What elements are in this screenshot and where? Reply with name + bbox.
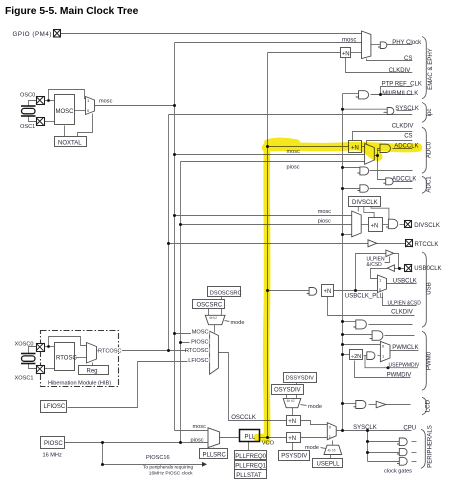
- node vco-USB: [266, 289, 269, 292]
- svg-text:piosc: piosc: [287, 164, 300, 170]
- node trunk-SYSCLK: [341, 429, 344, 432]
- wire RTCCLK buffer to pad: [377, 243, 406, 245]
- wire ADCCLK ADC1 output: [394, 181, 413, 183]
- svg-text:EMAC & EPHY: EMAC & EPHY: [427, 48, 434, 90]
- svg-text:NOXTAL: NOXTAL: [58, 141, 82, 147]
- wire USB riser to output buffer: [356, 254, 386, 290]
- node vco-PLL: [266, 436, 269, 439]
- wire DIVSCLK box to +N: [364, 207, 374, 218]
- svg-text:ADC1: ADC1: [425, 176, 432, 193]
- svg-text:OSC1: OSC1: [20, 124, 35, 130]
- buffer USB input: [387, 265, 394, 272]
- NOXTAL box: [55, 137, 87, 147]
- PLLSRC box: [200, 449, 228, 459]
- crystal main oscillator: [21, 106, 36, 116]
- wire mode2 mux to +N divider: [292, 408, 294, 416]
- wire PWM gate output: [385, 335, 415, 337]
- buffer LCD: [376, 401, 386, 408]
- svg-text:ULPIEN &CSD: ULPIEN &CSD: [388, 301, 422, 307]
- svg-text:OSCSRC: OSCSRC: [197, 303, 223, 309]
- arrowhead PIOSC16: [202, 462, 207, 467]
- mux system clock: [327, 423, 336, 440]
- svg-text:ADC0: ADC0: [425, 141, 432, 158]
- highlight vertical VCO riser: [266, 146, 267, 441]
- buffer RTCCLK: [368, 240, 377, 247]
- wire +N2 to PSYSDIV: [292, 443, 294, 451]
- wire XOSC0 pad to crystal: [29, 347, 37, 355]
- svg-text:DIVSCLK: DIVSCLK: [352, 200, 378, 206]
- wire LCD buffer output: [386, 404, 411, 406]
- pad XOSC0: [36, 343, 45, 351]
- svg-text:RTCCLK: RTCCLK: [415, 242, 439, 248]
- highlight horizontal VCO to ADCCLK: [266, 146, 418, 148]
- wire piosc branch to DIVSCLK mux: [181, 224, 352, 226]
- svg-text:4b b2: 4b b2: [287, 399, 295, 403]
- node periph gate1: [366, 440, 369, 443]
- wire mosc to EMAC mux (top branch): [175, 42, 362, 44]
- wire USB mux select ULPIEN: [383, 293, 417, 306]
- wire PIOSC16 to peripherals: [103, 464, 203, 466]
- wire div2N to PWM AND gate: [364, 355, 367, 357]
- svg-text:16 MHz: 16 MHz: [43, 452, 62, 458]
- wire mosc riser (vertical x=174.5): [174, 43, 176, 431]
- wire +N1 to sys mux input 0: [300, 421, 328, 425]
- wire RTCOSC branch to ipc gate: [169, 114, 413, 116]
- svg-text:mosc: mosc: [99, 99, 113, 105]
- wire +N2 to sys mux input 1: [300, 437, 328, 439]
- node XOSC0 junction: [47, 345, 50, 348]
- wire DIVSCLK box to gate enable: [371, 207, 389, 220]
- wire trunk to DIVSCLK mux: [343, 234, 352, 236]
- wire ipc SYSCLK output: [397, 110, 413, 112]
- wire USEPWMDIV control: [365, 356, 418, 368]
- svg-text:4b b5: 4b b5: [328, 449, 336, 453]
- svg-text:PTP REF_CLK: PTP REF_CLK: [382, 81, 422, 87]
- wire trunk to div2N box: [343, 354, 350, 356]
- wire CPU riser for peripherals: [367, 431, 369, 462]
- wire to peripheral gate 2: [368, 452, 400, 454]
- svg-text:DIVSCLK: DIVSCLK: [414, 223, 440, 229]
- wire MII/RMII CLK output: [371, 94, 413, 96]
- svg-text:mosc: mosc: [318, 209, 332, 215]
- gate PHY Clock: [378, 42, 387, 49]
- wire piosc branch to OSCSRC big mux: [181, 342, 210, 344]
- wire mode mux to OSCSRC big mux select: [214, 325, 216, 333]
- mux mode osysdiv: [283, 398, 301, 407]
- svg-text:CPU: CPU: [403, 425, 416, 431]
- gate LCD: [353, 401, 366, 409]
- mux DIVSCLK: [352, 211, 362, 237]
- wire EMAC +N to mux: [351, 52, 362, 54]
- wire HIB mux select to Reg: [92, 363, 94, 366]
- wire ADC mux out down to ADC1 gate: [378, 156, 386, 180]
- wire trunk to ADC0 gate: [343, 167, 360, 169]
- wire PWMCLK output: [391, 350, 419, 352]
- highlight PLL VCO output: [257, 434, 265, 442]
- node trunk-USBCLKDIV: [341, 320, 344, 323]
- svg-text:RTOSC: RTOSC: [56, 356, 77, 362]
- OSCSRC box: [193, 300, 225, 309]
- wire PIOSC to PIOSC16: [102, 443, 104, 465]
- wire trunk to ADC1 gate: [343, 188, 360, 190]
- label LFIOSC mux input: [188, 357, 210, 364]
- mux mode oscsrc: [205, 315, 225, 324]
- wire MOSC mux to NOXTAL: [78, 114, 93, 137]
- crystal hibernation oscillator: [21, 354, 36, 364]
- node USBCLK_PLL riser: [354, 289, 357, 292]
- svg-text:USEPWMDIV: USEPWMDIV: [389, 363, 421, 369]
- node mosc-DIVSCLK: [173, 214, 176, 217]
- brace ipc: [422, 103, 426, 123]
- svg-text:mode: mode: [231, 320, 245, 326]
- node trunk-ADC0: [341, 166, 344, 169]
- wire VCO riser (vertical x=267.2): [267, 53, 269, 438]
- wire mosc branch to OSCSRC big mux: [175, 333, 210, 335]
- mux MOSC bypass: [86, 97, 95, 115]
- wire piosc riser (vertical x=180): [180, 162, 182, 444]
- mux ADC: [365, 144, 375, 165]
- wire trunk to LCD gate: [343, 403, 356, 405]
- pad USB0CLK: [405, 265, 413, 272]
- wire MOSC box to mux input 0: [75, 110, 86, 112]
- wire mosc to PLLSRC mux (bottom branch): [175, 430, 209, 432]
- gate peripheral 1: [397, 438, 407, 446]
- PLLFREQ1 box: [235, 461, 267, 470]
- USEPLL box: [313, 459, 343, 468]
- wire OSC0 loop to MOSC mux input 1: [49, 90, 86, 101]
- wire USB pad to input buffer: [395, 268, 399, 270]
- brace LCD: [422, 397, 426, 415]
- node MII-PTP: [379, 93, 382, 96]
- svg-text:XOSC1: XOSC1: [15, 376, 34, 382]
- pad XOSC1: [36, 365, 45, 373]
- wire PLLSRC mux select: [213, 448, 215, 449]
- wire XOSC1 pad to RTOSC box: [44, 368, 55, 370]
- wire ADC mux out to ADCCLK gate: [378, 149, 381, 156]
- PLLFREQ0 box: [235, 451, 267, 461]
- node CPU riser: [366, 429, 369, 432]
- node ADCmux output: [376, 154, 379, 157]
- wire mosc branch to DIVSCLK mux: [175, 215, 352, 217]
- wire ADC mux output junction: [375, 155, 378, 157]
- wire mode2 mux tick: [301, 405, 307, 406]
- wire PLL to PLLFREQ0: [248, 442, 250, 451]
- LFIOSC box: [41, 401, 67, 413]
- wire RTCOSC branch to RTCCLK buffer: [169, 243, 369, 245]
- Reg box: [79, 366, 109, 375]
- wire mosc branch to ADC mux: [175, 154, 365, 156]
- svg-text:USBCLK: USBCLK: [393, 278, 417, 284]
- wire PHY Clock output: [387, 44, 413, 46]
- node trunk-ipc: [341, 108, 344, 111]
- node rtcosc-HIB: [167, 349, 170, 352]
- wire to peripheral gate 3: [368, 461, 400, 463]
- wire RTOSC box to HIB mux input 0: [76, 357, 87, 359]
- wire OSYSDIV to mode mux right: [296, 394, 298, 399]
- divider +N DIVSCLK: [369, 218, 383, 232]
- wire piosc branch to ADC mux: [181, 161, 365, 163]
- gate ADC1 aux: [358, 185, 369, 192]
- wire mode mux tick: [225, 321, 230, 322]
- OSYSDIV box: [272, 385, 304, 395]
- wire LFIOSC to OSCSRC big mux: [68, 362, 210, 408]
- wire RTCOSC from HIB mux to OSCSRC big mux: [97, 350, 210, 352]
- svg-text:4b b2: 4b b2: [209, 316, 217, 320]
- wire EMAC CLKDIV: [346, 58, 413, 73]
- svg-text:+N: +N: [324, 289, 332, 295]
- mux RTCOSC: [87, 343, 97, 364]
- node trunk-ADC1: [341, 187, 344, 190]
- svg-text:RTCOSC: RTCOSC: [98, 348, 122, 354]
- svg-text:mosc: mosc: [342, 37, 356, 43]
- svg-text:ipc: ipc: [426, 109, 433, 117]
- svg-text:PWM0: PWM0: [425, 351, 432, 370]
- node trunk-DIVSCLK: [341, 233, 344, 236]
- svg-text:CLKDIV: CLKDIV: [389, 68, 411, 74]
- mux EMAC: [362, 31, 371, 59]
- gate MII/RMII: [356, 91, 369, 99]
- svg-text:MOSC: MOSC: [56, 109, 75, 115]
- PSYSDIV box: [279, 451, 310, 461]
- svg-text:RTCOSC: RTCOSC: [185, 348, 209, 354]
- node vco-ADC: [266, 145, 269, 148]
- node OSC0 junction: [47, 99, 50, 102]
- node piosc-DIVSCLK: [179, 223, 182, 226]
- RTOSC box: [55, 343, 78, 371]
- wire PTP REF_CLK: [381, 87, 413, 95]
- wire GPIO (PM4) to EMAC mux: [61, 33, 362, 35]
- node periph gate2: [366, 451, 369, 454]
- svg-text:USEPLL: USEPLL: [317, 462, 341, 468]
- mux mode usepll: [324, 445, 342, 454]
- divider div2N PWM: [350, 350, 363, 360]
- svg-text:Figure 5-5. Main Clock Tree: Figure 5-5. Main Clock Tree: [5, 6, 139, 17]
- svg-text:piosc: piosc: [318, 218, 331, 224]
- wire trunk to USB CLKDIV gate: [343, 321, 356, 323]
- divider +N osysdiv: [287, 416, 301, 426]
- svg-text:PIOSC: PIOSC: [44, 441, 63, 447]
- wire ADC CLKDIV control: [353, 132, 413, 141]
- wire trunk to ipc SYSCLK gate: [343, 108, 388, 110]
- svg-text:LFIOSC: LFIOSC: [188, 358, 208, 364]
- MOSC box: [55, 95, 75, 125]
- svg-text:DSOSCSRC: DSOSCSRC: [210, 290, 242, 296]
- wire OSC0 pad to MOSC box: [44, 100, 55, 102]
- wire USBCLK output: [387, 283, 417, 285]
- wire PWMDIV control: [355, 361, 411, 378]
- svg-text:PIOSC: PIOSC: [191, 339, 208, 345]
- wire OSC0 pad to crystal: [29, 101, 37, 107]
- DIVSCLK box: [349, 197, 381, 207]
- node rtcosc-RTCCLK: [167, 242, 170, 245]
- svg-text:SYSCLK: SYSCLK: [395, 106, 419, 112]
- svg-text:PSYSDIV: PSYSDIV: [281, 453, 307, 459]
- svg-text:mode: mode: [305, 445, 319, 451]
- node mosc-ADC: [173, 153, 176, 156]
- svg-text:÷2N: ÷2N: [351, 354, 361, 360]
- node mosc-OSCSRC: [173, 332, 176, 335]
- label MOSC mux input: [191, 329, 210, 336]
- wire USB buffer enable stub: [385, 257, 390, 263]
- node trunk-div2N: [341, 353, 344, 356]
- svg-text:CS: CS: [404, 56, 412, 62]
- hibernation module dash-dot border: [41, 331, 119, 387]
- wire XOSC1 pad to crystal: [29, 363, 37, 369]
- node piosc-PIOSC: [179, 441, 182, 444]
- pad OSC1: [36, 118, 45, 126]
- wire OSCSRC big mux output to OSCCLK: [219, 353, 287, 421]
- svg-text:SYSCLK: SYSCLK: [353, 425, 377, 431]
- svg-text:+N: +N: [371, 224, 379, 230]
- node USEPWMDIV: [387, 366, 390, 369]
- wire DSSYSDIV to OSYSDIV: [296, 383, 298, 385]
- gate ADCCLK ADC0: [378, 144, 391, 152]
- label RTCOSC mux input: [185, 347, 210, 354]
- wire VCO branch to EMAC +N: [268, 52, 341, 54]
- svg-text:PHY Clock: PHY Clock: [392, 40, 422, 46]
- gate peripheral 3: [397, 458, 407, 466]
- mux USB: [378, 275, 387, 293]
- svg-text:PIOSC16: PIOSC16: [146, 455, 170, 461]
- node mosc-MOSCmux: [173, 104, 176, 107]
- label RTCOSC at HIB mux: [98, 347, 123, 354]
- brace USB: [422, 252, 426, 327]
- wire mode3 tick: [321, 448, 326, 449]
- svg-text:OSC0: OSC0: [20, 93, 35, 99]
- wire DIVSCLK mux to +N: [362, 224, 369, 226]
- wire XOSC0 pad to RTOSC box: [44, 346, 55, 348]
- svg-text:LFIOSC: LFIOSC: [44, 404, 66, 410]
- svg-text:LCD: LCD: [425, 399, 432, 412]
- svg-text:PLLSTAT: PLLSTAT: [236, 473, 261, 479]
- svg-text:To peripherals requiring: To peripherals requiring: [143, 465, 193, 471]
- svg-text:&/CSD: &/CSD: [367, 262, 383, 268]
- mux PWM: [380, 341, 390, 361]
- wire PLLSRC mux to PLL: [220, 437, 240, 439]
- wire trunk to MII/RMII gate: [343, 93, 359, 95]
- wire DSOSCSRC to OSCSRC: [221, 297, 223, 300]
- wire PWM AND gate to mux input 1: [378, 355, 381, 357]
- brace PWM0: [422, 331, 426, 390]
- brace EMAC & EPHY: [422, 37, 426, 99]
- wire MOSC box to NOXTAL: [64, 126, 66, 137]
- svg-text:CLKDIV: CLKDIV: [391, 310, 413, 316]
- svg-text:Hibernation Module (HIB): Hibernation Module (HIB): [48, 381, 111, 387]
- wire USEPLL box to mode mux: [330, 455, 332, 459]
- wire OSCSRC to mode mux right: [221, 309, 223, 316]
- wire trunk to PWM gate: [343, 334, 373, 336]
- highlight start blob: [267, 141, 297, 143]
- divider +N USB: [322, 285, 334, 297]
- mux OSCSRC big: [210, 331, 219, 374]
- wire USBCLK_PLL to mux input 0: [334, 290, 378, 292]
- wire ADCCLK ADC0 output: [393, 148, 413, 150]
- wire USB CLKDIV gate output: [369, 324, 413, 326]
- gate PWM sysclk: [370, 331, 383, 341]
- gate PWM div: [367, 352, 375, 360]
- svg-text:CLKDIV: CLKDIV: [392, 123, 414, 129]
- svg-text:mode: mode: [308, 404, 322, 410]
- svg-text:piosc: piosc: [191, 437, 204, 443]
- svg-text:OSYSDIV: OSYSDIV: [274, 387, 301, 393]
- svg-text:ADCCLK: ADCCLK: [392, 177, 416, 183]
- DSSYSDIV box: [284, 373, 317, 383]
- wire OSC1 pad to MOSC box: [44, 121, 55, 123]
- wire DIVSCLK box to mux select: [357, 207, 359, 212]
- buffer USB output: [386, 250, 394, 257]
- wire trunk to PWM mux input 0: [343, 344, 381, 346]
- svg-text:USBCLK_PLL: USBCLK_PLL: [345, 293, 384, 299]
- node trunk-PWMmux: [341, 343, 344, 346]
- highlight over ADC mux: [360, 147, 378, 157]
- node trunk-LCD: [341, 402, 344, 405]
- node PIOSC junction top: [101, 441, 104, 444]
- wire LCD gate to buffer: [369, 404, 377, 406]
- pad OSC0: [36, 97, 45, 105]
- svg-text:GPIO (PM4): GPIO (PM4): [12, 31, 52, 38]
- wire OSC1 pad to crystal: [29, 116, 37, 122]
- wire RTCOSC riser (vertical x=168): [168, 115, 170, 351]
- svg-text:PWMCLK: PWMCLK: [392, 345, 418, 351]
- svg-text:16MHz PIOSC clock: 16MHz PIOSC clock: [149, 471, 193, 477]
- wire ADC0 gate output: [370, 170, 413, 172]
- svg-text:+N: +N: [342, 52, 350, 58]
- PIOSC box: [41, 437, 65, 449]
- svg-text:USB0CLK: USB0CLK: [414, 266, 441, 272]
- wire MOSC mux output to riser: [95, 105, 175, 107]
- svg-text:XOSC0: XOSC0: [15, 341, 34, 347]
- gate USB vco: [307, 288, 317, 296]
- wire SYSCLK trunk (vertical x=343): [342, 94, 344, 431]
- wire PLL VCO to +N2: [260, 437, 287, 439]
- node USB pad junction: [398, 267, 401, 270]
- svg-text:DSSYSDIV: DSSYSDIV: [286, 376, 315, 382]
- gate ADC0 aux: [358, 167, 369, 175]
- divider +N ADC: [349, 141, 362, 153]
- svg-text:mosc: mosc: [193, 424, 207, 430]
- wire EMAC mux to PHY gate: [371, 44, 381, 46]
- gate DIVSCLK: [386, 219, 398, 229]
- svg-text:MOSC: MOSC: [192, 330, 209, 336]
- svg-text:PERIPHERALS: PERIPHERALS: [427, 425, 434, 468]
- mux PLLSRC: [208, 428, 220, 448]
- wire USB input buffer to mux input 1: [371, 269, 388, 279]
- wire PIOSC output: [65, 442, 209, 444]
- wire SYSCLK output to CPU: [337, 430, 412, 432]
- svg-text:PWMDIV: PWMDIV: [387, 372, 412, 378]
- wire to peripheral gate 1: [368, 441, 400, 443]
- label PIOSC mux input: [190, 339, 210, 346]
- wire USB buffer to pad: [394, 254, 405, 269]
- brace ADC1: [422, 176, 426, 193]
- node piosc-OSCSRC: [179, 341, 182, 344]
- wire XOSC0 loop to HIB mux input 1: [49, 337, 87, 347]
- svg-text:PLLFREQ1: PLLFREQ1: [235, 464, 266, 470]
- divider +N psysdiv: [287, 433, 301, 443]
- svg-text:OSCCLK: OSCCLK: [231, 415, 256, 421]
- wire USB +N CLKDIV loop: [328, 297, 415, 316]
- pad GPIO (PM4): [54, 30, 61, 38]
- gate peripheral 2: [397, 448, 407, 455]
- wire ADC1 gate output: [370, 188, 413, 190]
- wire ADC CS control: [367, 141, 413, 145]
- wire OSCSRC to mode mux left: [208, 309, 210, 316]
- PLLSTAT box: [235, 470, 267, 479]
- gate ADCCLK ADC1: [383, 178, 393, 185]
- wire ADC +N to mux: [362, 146, 365, 148]
- divider +N EMAC: [341, 48, 351, 58]
- svg-text:MII/RMII CLK: MII/RMII CLK: [382, 91, 418, 97]
